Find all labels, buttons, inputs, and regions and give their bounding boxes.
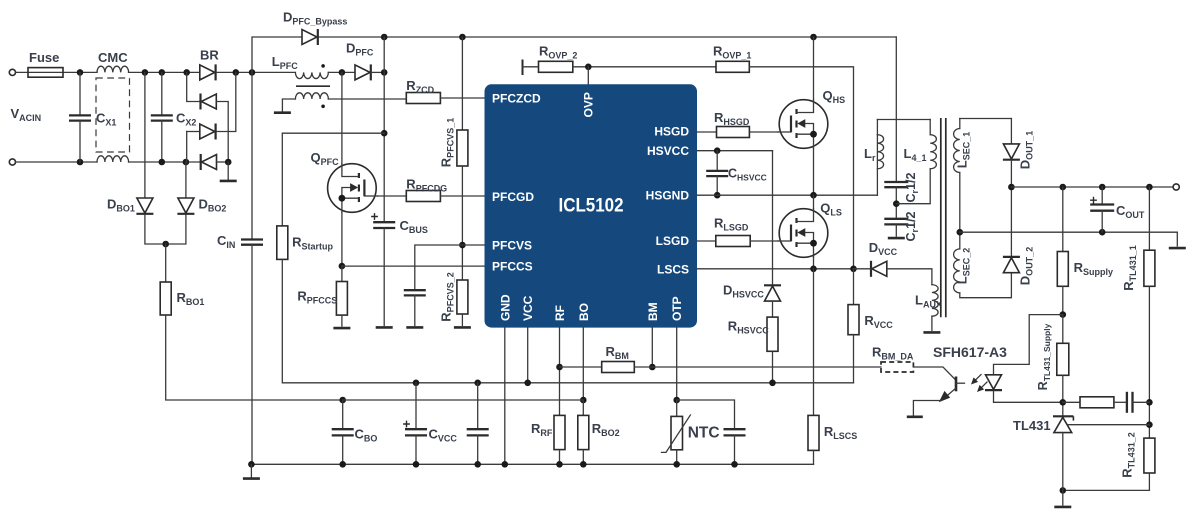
label D_OUT_2 bbox=[1018, 247, 1035, 285]
wire source Q_PFC to PFCCS bbox=[341, 212, 343, 266]
diode opto LED bbox=[985, 375, 1002, 390]
svg-text:Lr: Lr bbox=[864, 146, 876, 163]
node PFCCS sense bbox=[339, 263, 346, 270]
wire drain Q_PFC bbox=[341, 72, 343, 163]
resistor R_BM_DA (dashed) bbox=[881, 362, 913, 372]
ground aux winding bbox=[274, 112, 291, 114]
wire HSGND midpoint row bbox=[697, 194, 877, 196]
node TL431 cathode junction bbox=[1060, 399, 1067, 406]
wire center tap vertical bbox=[959, 173, 961, 249]
wire C_VCC bottom lead bbox=[415, 435, 417, 464]
svg-text:BR: BR bbox=[200, 48, 219, 63]
resistor R_RF bbox=[554, 415, 565, 449]
svg-text:PFCVS: PFCVS bbox=[492, 239, 532, 253]
wire to D_OUT_1 anode bbox=[1010, 119, 1012, 144]
wire R_TL431_Supply to TL431 bbox=[1062, 375, 1064, 416]
node C_BO top bbox=[339, 397, 346, 404]
opto transistor SFH617 detector bbox=[939, 377, 965, 403]
wire opto emitter to ground bbox=[913, 401, 941, 416]
capacitor C_HSVCC bbox=[706, 171, 728, 176]
inductor L_r bbox=[877, 135, 883, 169]
resistor R_TL431_1 bbox=[1144, 250, 1155, 286]
node R_TL431_1 tap bbox=[1146, 184, 1153, 191]
svg-text:LSEC_2: LSEC_2 bbox=[955, 248, 972, 284]
wire NTC to GND rail bbox=[676, 450, 678, 465]
wire C_BUS to ground bbox=[383, 228, 385, 325]
node R_Startup tap bbox=[381, 130, 388, 137]
node resonant cap midpoint bbox=[893, 200, 900, 207]
resistor R_Supply bbox=[1057, 252, 1068, 287]
svg-text:Fuse: Fuse bbox=[29, 50, 59, 65]
wire R_RF to GND rail bbox=[559, 450, 561, 465]
resistor R_PFCVS_1 bbox=[457, 130, 468, 166]
resistor R_VCC bbox=[848, 305, 859, 335]
node C_OUT bottom bbox=[1099, 229, 1106, 236]
wire R_PFCDG to PFCGD pin bbox=[440, 195, 484, 197]
wire C_X2 bottom lead bbox=[161, 121, 163, 162]
wire PFCCS row bbox=[342, 265, 485, 267]
ground R_PFCVS_2 bbox=[454, 326, 471, 328]
svg-text:RPFCVS_1: RPFCVS_1 bbox=[439, 118, 456, 167]
L_PFC polarity dot top bbox=[321, 64, 325, 68]
terminal stub OVP divider bbox=[522, 60, 524, 76]
wire node to R_VCC bbox=[853, 269, 855, 305]
wire Q_HS source to midpoint bbox=[813, 148, 815, 195]
wire R_TL431_2 to TL431 anode bbox=[1063, 473, 1150, 490]
node boost output bbox=[381, 69, 388, 76]
wire Q_LS source to LSCS bbox=[813, 257, 815, 269]
ground L_AUX bbox=[923, 331, 940, 333]
wire BR D3 cathode up to DC+ bbox=[217, 72, 236, 131]
svg-text:QHS: QHS bbox=[823, 88, 846, 105]
wire C_X1 top lead bbox=[79, 72, 81, 115]
svg-text:PFCZCD: PFCZCD bbox=[492, 92, 541, 106]
wire AC bottom to CMC bbox=[16, 161, 98, 163]
svg-text:CHSVCC: CHSVCC bbox=[728, 167, 767, 183]
node bridge DC+ junction bbox=[233, 69, 240, 76]
resistor R_PFCDG bbox=[406, 191, 440, 202]
wire midpoint to Q_LS drain bbox=[813, 195, 815, 209]
node C_OUT top bbox=[1099, 184, 1106, 191]
pin OTP bbox=[670, 296, 684, 321]
diode D_BO1 bbox=[136, 198, 153, 214]
wire R_Startup to VCC rail bbox=[282, 259, 416, 382]
wire opto collector bbox=[913, 367, 956, 381]
wire to comp resistor bbox=[1063, 401, 1080, 403]
wire LED cathode to TL431 node bbox=[994, 392, 1063, 403]
resistor R_TL431_2 bbox=[1144, 438, 1155, 473]
ground main bbox=[243, 478, 260, 480]
wire OTP to NTC bbox=[676, 400, 678, 416]
svg-text:VCC: VCC bbox=[521, 295, 535, 321]
node R_BM right bbox=[649, 364, 656, 371]
svg-text:BM: BM bbox=[646, 302, 660, 321]
node PFCVS divider bbox=[459, 242, 466, 249]
node GND rail left bbox=[248, 461, 255, 468]
node bridge AC1 junction bbox=[183, 69, 190, 76]
wire GND rail bbox=[251, 463, 813, 465]
wire CMC to bridge top bbox=[129, 71, 200, 73]
resistor R_PFCCS bbox=[336, 282, 347, 316]
wire VCC pin to VCC rail bbox=[527, 328, 529, 383]
diode BR D3 bbox=[200, 124, 216, 140]
resistor R_ZCD bbox=[406, 93, 440, 104]
diode D_BO2 bbox=[177, 198, 194, 214]
node R_BM left bbox=[556, 364, 563, 371]
wire R_BO1 to BO row bbox=[166, 315, 343, 400]
wire AC1 to D_BO1 bbox=[144, 72, 146, 198]
node bus at C_BUS branch bbox=[381, 34, 388, 41]
svg-text:ROVP_1: ROVP_1 bbox=[713, 44, 751, 61]
svg-text:DVCC: DVCC bbox=[869, 240, 898, 257]
node bridge AC2 junction bbox=[183, 159, 190, 166]
node C_HSVCC bottom bbox=[714, 192, 721, 199]
ground opto emitter bbox=[907, 416, 923, 418]
wire R_PFCCS to ground bbox=[341, 315, 343, 326]
resistor R_LSCS bbox=[808, 415, 819, 450]
wire D_BO cathodes join bbox=[145, 215, 186, 244]
resistor compensation bbox=[1080, 397, 1114, 408]
svg-text:SFH617-A3: SFH617-A3 bbox=[933, 344, 1007, 360]
resistor R_BO1 bbox=[160, 282, 171, 315]
wire BR D4 anode to DC- bbox=[217, 161, 229, 163]
opto LED arrows bbox=[971, 375, 987, 393]
node half-bridge midpoint bbox=[810, 192, 817, 199]
terminal OUT+ bbox=[1173, 184, 1179, 190]
wire BM pin down bbox=[651, 328, 653, 367]
ground TL431 bbox=[1054, 506, 1071, 508]
wire C_OUT top lead bbox=[1101, 187, 1103, 205]
node bus at R_PFCVS_1 branch bbox=[459, 34, 466, 41]
wire BR D2 anode down to DC- bbox=[216, 102, 228, 163]
transistor Q_HS bbox=[778, 100, 828, 149]
svg-text:RBO1: RBO1 bbox=[177, 290, 205, 307]
node compensation tap bbox=[1146, 399, 1153, 406]
diode BR D1 bbox=[200, 64, 216, 80]
node R_BO2 bottom bbox=[580, 461, 587, 468]
resistor R_LSGD bbox=[716, 236, 750, 247]
node R_HSVCC bottom bbox=[769, 380, 776, 387]
node output positive junction bbox=[1008, 184, 1015, 191]
inductor L_SEC_1 bbox=[954, 129, 960, 173]
wire OTP cap to GND rail bbox=[734, 435, 736, 464]
wire VCC cap bottom lead bbox=[477, 435, 479, 464]
wire VCC rail bbox=[416, 382, 854, 384]
node VCC pin junction bbox=[524, 380, 531, 387]
svg-text:RBO2: RBO2 bbox=[592, 421, 620, 438]
svg-text:HSGND: HSGND bbox=[646, 189, 690, 203]
wire GND pin to GND rail bbox=[504, 328, 506, 465]
label R_PFCVS_1 bbox=[439, 118, 456, 167]
wire C_r upper to node bbox=[895, 187, 897, 219]
capacitor C_OUT bbox=[1090, 197, 1114, 211]
wire AC top through fuse to CMC bbox=[16, 71, 98, 73]
svg-text:CX2: CX2 bbox=[176, 111, 196, 128]
wire bus tap to R_Startup bbox=[282, 133, 384, 226]
wire HSGD pin to R_HSGD bbox=[697, 131, 717, 133]
svg-text:DBO2: DBO2 bbox=[199, 197, 227, 214]
label L_SEC_1 bbox=[955, 132, 972, 168]
svg-text:RRF: RRF bbox=[531, 421, 553, 438]
wire OUT+ to R_Supply bbox=[1062, 187, 1064, 252]
capacitor C_BUS bbox=[371, 213, 395, 228]
node R_Supply tap bbox=[1060, 184, 1067, 191]
svg-text:DPFC: DPFC bbox=[346, 41, 374, 58]
svg-text:CX1: CX1 bbox=[96, 111, 116, 128]
wire output return rail bbox=[960, 232, 1178, 246]
wire R_HSGD to Q_HS gate bbox=[749, 131, 778, 133]
wire PFCVS to filter cap bbox=[415, 245, 463, 290]
svg-text:CBUS: CBUS bbox=[400, 218, 428, 235]
wire R_Supply to node bbox=[1062, 286, 1064, 314]
svg-text:QPFC: QPFC bbox=[311, 150, 340, 167]
inductor L_AUX bbox=[932, 285, 938, 317]
transistor Q_PFC bbox=[328, 164, 378, 213]
wire rectifier cathodes join bbox=[1010, 161, 1012, 257]
diode D_OUT_1 bbox=[1003, 144, 1020, 160]
capacitor C_VCC bbox=[403, 421, 427, 436]
terminal AC input top bbox=[9, 69, 15, 75]
svg-text:Cr1/2: Cr1/2 bbox=[904, 172, 920, 202]
svg-text:RLSCS: RLSCS bbox=[824, 424, 857, 441]
svg-text:RPFCDG: RPFCDG bbox=[406, 177, 447, 194]
capacitor OTP filter bbox=[724, 429, 746, 435]
wire L_PFC to D_PFC bbox=[328, 71, 355, 73]
wire node to R_TL431_Supply bbox=[1062, 315, 1064, 344]
wire RF pin to R_RF bbox=[559, 328, 561, 416]
wire DC+ up to bypass line bbox=[252, 37, 302, 72]
inductor L_SEC_2 bbox=[954, 249, 960, 293]
wire TL431 anode down bbox=[1062, 433, 1064, 491]
inductor L_PFC aux winding bbox=[295, 93, 328, 99]
wire R_BO2 to GND rail bbox=[582, 450, 584, 465]
diode D_HSVCC bbox=[764, 285, 781, 301]
wire BO row bbox=[343, 399, 584, 401]
wire C_HSVCC top lead bbox=[716, 151, 718, 171]
diode BR D2 bbox=[201, 94, 217, 110]
svg-text:CBO: CBO bbox=[355, 427, 378, 444]
node R_Supply bottom bbox=[1060, 311, 1067, 318]
wire AC2 to D_BO2 bbox=[185, 162, 187, 198]
wire BR D3 anode to AC2 bbox=[186, 132, 188, 163]
svg-text:RTL431_Supply: RTL431_Supply bbox=[1036, 323, 1052, 390]
resistor R_BO2 bbox=[578, 415, 589, 449]
wire R_VCC to VCC rail bbox=[853, 335, 855, 383]
wire PFCVS pin to divider bbox=[462, 244, 484, 246]
transformer core lines bbox=[941, 118, 946, 317]
diode D_PFC bbox=[355, 64, 371, 80]
transistor Q_LS bbox=[778, 209, 828, 258]
node TL431 ref tap bbox=[1146, 421, 1153, 428]
svg-text:RStartup: RStartup bbox=[292, 235, 333, 252]
wire TL431 ref to divider bbox=[1069, 424, 1150, 426]
svg-text:L4_1: L4_1 bbox=[904, 146, 927, 163]
label R_TL431_Supply bbox=[1036, 323, 1052, 390]
wire C_BO bottom lead bbox=[342, 435, 344, 464]
wire HSVCC row bbox=[697, 150, 773, 152]
wire R_OVP_1 to D_VCC node bbox=[749, 67, 853, 269]
svg-text:DPFC_Bypass: DPFC_Bypass bbox=[283, 10, 347, 27]
label R_PFCVS_2 bbox=[439, 272, 456, 321]
resistor R_OVP_2 bbox=[539, 61, 573, 72]
node NTC bottom bbox=[673, 461, 680, 468]
node R_RF bottom bbox=[556, 461, 563, 468]
diode D_PFC_Bypass bbox=[302, 29, 318, 45]
wire C_OUT bottom lead bbox=[1101, 211, 1103, 233]
svg-text:NTC: NTC bbox=[688, 425, 720, 442]
node C_X1 top junction bbox=[77, 69, 84, 76]
wire OTP to filter cap bbox=[677, 400, 735, 429]
node Q_PFC drain tap bbox=[339, 69, 346, 76]
label D_OUT_1 bbox=[1018, 131, 1035, 169]
node C_IN tap bbox=[249, 69, 256, 76]
node Q_LS source sense bbox=[810, 266, 817, 273]
capacitor C_BO bbox=[332, 429, 354, 435]
svg-text:RBM: RBM bbox=[606, 344, 629, 361]
pin VCC bbox=[521, 295, 535, 321]
node bridge DC- junction bbox=[225, 159, 232, 166]
wire D_VCC to L_AUX bbox=[887, 269, 932, 285]
wire bus to Q_HS drain bbox=[813, 37, 815, 100]
svg-text:ICL5102: ICL5102 bbox=[559, 196, 624, 217]
node D_VCC junction bbox=[850, 266, 857, 273]
wire L_4_1 top lead bbox=[929, 120, 931, 135]
svg-text:LSGD: LSGD bbox=[656, 234, 690, 248]
L_PFC polarity dot aux bbox=[321, 105, 325, 109]
node C_X1 bottom junction bbox=[77, 159, 84, 166]
node VCC cap top bbox=[474, 380, 481, 387]
wire L_SEC_1 top to D_OUT_1 bbox=[960, 118, 1012, 120]
wire comp cap to divider bbox=[1133, 401, 1150, 403]
node OVP pin tap bbox=[585, 64, 592, 71]
svg-text:HSVCC: HSVCC bbox=[647, 144, 689, 158]
wire bus to C_r upper bbox=[895, 37, 897, 182]
wire L_r top to L_4_1 top bbox=[877, 119, 930, 121]
pin GND bbox=[498, 294, 512, 321]
wire filter cap to ground bbox=[414, 295, 416, 325]
wire GND rail to ground bbox=[250, 464, 252, 477]
wire C_X1 bottom lead bbox=[79, 121, 81, 162]
wire bridge output to L_PFC bbox=[217, 71, 295, 73]
svg-text:DOUT_1: DOUT_1 bbox=[1018, 131, 1035, 169]
diode BR D4 bbox=[201, 154, 217, 170]
wire OUT+ rail bbox=[1011, 186, 1173, 188]
svg-text:RZCD: RZCD bbox=[406, 78, 434, 95]
svg-text:QLS: QLS bbox=[820, 201, 842, 218]
svg-text:CMC: CMC bbox=[98, 50, 128, 65]
svg-text:Cr1/2: Cr1/2 bbox=[904, 211, 920, 241]
svg-text:LSCS: LSCS bbox=[657, 262, 689, 276]
svg-text:PFCCS: PFCCS bbox=[492, 260, 533, 274]
wire C_r lower to ground bbox=[895, 224, 897, 236]
wire D_PFC to bus node bbox=[372, 71, 384, 73]
wire VCC cap top lead bbox=[477, 383, 479, 429]
svg-text:OVP: OVP bbox=[582, 92, 596, 117]
inductor L_PFC main winding bbox=[295, 72, 328, 78]
wire C_IN bottom lead to GND rail bbox=[251, 245, 253, 465]
svg-text:COUT: COUT bbox=[1116, 203, 1145, 220]
wire AC1 down to BR D2 bbox=[187, 72, 201, 101]
wire R_OVP_2 to R_OVP_1 bbox=[573, 66, 716, 68]
pin BM bbox=[646, 302, 660, 321]
wire R_PFCVS_2 to ground bbox=[461, 314, 463, 325]
pin OVP bbox=[582, 92, 596, 117]
wire C_VCC top lead bbox=[415, 383, 417, 429]
svg-text:DOUT_2: DOUT_2 bbox=[1018, 247, 1035, 285]
svg-text:CVCC: CVCC bbox=[429, 427, 458, 444]
inductor CMC common-mode choke bbox=[96, 66, 130, 162]
diode D_OUT_2 bbox=[1003, 257, 1020, 273]
diode D_VCC bbox=[871, 261, 887, 277]
resistor R_TL431_Supply bbox=[1057, 343, 1069, 375]
wire bus top line bbox=[319, 36, 897, 38]
inductor L_4_1 transformer primary bbox=[930, 135, 936, 169]
wire L_4_1 bottom to cap midpoint bbox=[896, 169, 930, 204]
shunt regulator TL431 bbox=[1053, 416, 1073, 432]
wire aux winding to R_ZCD bbox=[328, 98, 406, 100]
ground PFCVS filter cap bbox=[406, 326, 423, 328]
wire R_LSGD to Q_LS gate bbox=[750, 240, 778, 242]
label R_TL431_2 bbox=[1120, 432, 1137, 477]
wire midpoint up to L_r bbox=[876, 135, 878, 196]
label C_r1/2 upper bbox=[904, 172, 920, 202]
wire L_AUX to ground bbox=[931, 316, 933, 330]
wire DC- to ground bbox=[227, 162, 229, 181]
node D_BO1 tap bbox=[142, 69, 149, 76]
svg-text:LPFC: LPFC bbox=[272, 54, 298, 71]
wire R_PFCVS_1 to R_PFCVS_2 bbox=[461, 166, 463, 280]
wire to opto LED anode bbox=[994, 315, 1063, 375]
svg-text:RVCC: RVCC bbox=[864, 313, 893, 330]
ground C_r lower bbox=[888, 237, 905, 239]
terminal AC input bottom bbox=[9, 159, 15, 165]
node R_BO1 top bbox=[162, 241, 169, 248]
wire comp resistor to cap bbox=[1114, 401, 1127, 403]
svg-text:RHSVCC: RHSVCC bbox=[728, 319, 769, 336]
ground R_PFCCS bbox=[333, 327, 350, 329]
ground C_BUS bbox=[376, 326, 393, 328]
wire R_ZCD to PFCZCD pin bbox=[440, 97, 484, 99]
capacitor compensation bbox=[1127, 392, 1133, 413]
svg-text:RF: RF bbox=[553, 305, 567, 321]
wire aux winding to ground bbox=[282, 99, 295, 113]
ground bridge DC- bbox=[220, 180, 237, 182]
fuse Fuse bbox=[28, 68, 63, 78]
resistor R_Startup bbox=[277, 226, 288, 260]
resistor R_OVP_1 bbox=[716, 61, 749, 72]
node TL431 anode junction bbox=[1060, 487, 1067, 494]
node OTP cap bottom bbox=[731, 461, 738, 468]
label C_r1/2 lower bbox=[904, 211, 920, 241]
wire C_X2 top lead bbox=[161, 72, 163, 115]
capacitor C_r1/2 upper bbox=[884, 182, 908, 187]
svg-text:RTL431_1: RTL431_1 bbox=[1121, 245, 1138, 290]
wire L_SEC_2 bottom to D_OUT_2 bbox=[960, 273, 1012, 298]
svg-text:RSupply: RSupply bbox=[1074, 260, 1113, 277]
wire bus vertical to C_BUS bbox=[383, 37, 385, 222]
node BO junction bbox=[580, 397, 587, 404]
wire R_LSCS to GND rail bbox=[813, 450, 815, 464]
svg-text:DBO1: DBO1 bbox=[107, 197, 135, 214]
label L_SEC_2 bbox=[955, 248, 972, 284]
wire node to D_VCC bbox=[854, 268, 872, 270]
svg-text:DHSVCC: DHSVCC bbox=[723, 283, 764, 300]
wire OVP pin vertical bbox=[587, 67, 589, 85]
wire BM to R_BM_DA bbox=[652, 366, 881, 368]
resistor R_PFCVS_2 bbox=[457, 280, 468, 314]
thermistor NTC bbox=[662, 415, 691, 452]
wire LSGD pin to R_LSGD bbox=[697, 240, 716, 242]
